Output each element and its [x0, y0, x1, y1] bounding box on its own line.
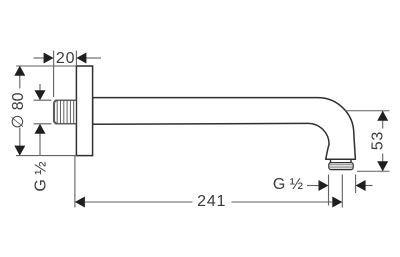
outlet G1/2 dimension: extension lines — [329, 175, 356, 206]
outlet G1/2 dimension: arrowheads — [319, 180, 329, 191]
svg-text:G ½: G ½ — [33, 161, 50, 191]
svg-text:20: 20 — [56, 50, 75, 67]
dimension dia 80: dimension line — [19, 66, 21, 156]
dimension 20: arrowheads — [44, 53, 54, 64]
dimension dia 80: extension lines — [16, 66, 76, 156]
svg-text:53: 53 — [370, 131, 387, 150]
svg-text:∅ 80: ∅ 80 — [10, 92, 27, 128]
outlet thread G1/2 collar — [329, 163, 353, 170]
wall flange — [76, 66, 92, 156]
dimension 20: leader tails — [34, 57, 102, 59]
dimension 241: dimension line — [84, 201, 333, 203]
wall thread G1/2 dimension: extension lines — [34, 100, 52, 124]
wall thread G1/2 outline — [54, 100, 77, 124]
wall thread chamfer shading — [54, 100, 57, 123]
dimension 241: extension lines — [75, 156, 342, 208]
svg-text:G ½: G ½ — [273, 176, 303, 193]
dimension 53: extension lines — [346, 111, 390, 172]
dimension 241: arrowheads — [75, 197, 85, 208]
outlet G1/2 dimension: leader tails — [307, 185, 373, 187]
dimension 53: label — [370, 131, 387, 150]
outlet neck — [330, 159, 332, 162]
dimension dia 80: label — [10, 92, 27, 128]
svg-text:241: 241 — [197, 193, 226, 210]
dimension 53: dimension line — [382, 111, 384, 171]
dimension 53: arrowheads — [377, 111, 388, 121]
wall thread G1/2 dimension: label — [33, 161, 50, 191]
dimension 20: extension lines — [54, 51, 77, 98]
wall thread hatch lines — [57, 101, 73, 124]
shower arm pipe — [93, 98, 356, 160]
outlet thread ridges — [329, 164, 353, 167]
dimension dia 80: arrowheads — [14, 66, 25, 76]
wall thread G1/2 dimension: leader tails — [39, 84, 41, 156]
wall thread G1/2 dimension: arrowheads — [35, 90, 46, 100]
